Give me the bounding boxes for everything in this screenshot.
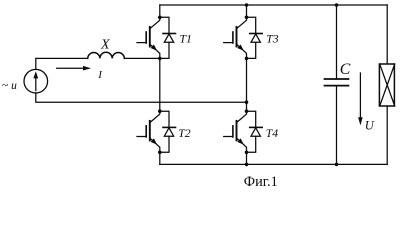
transistor T4 (IGBT) — [224, 111, 247, 152]
svg-text:C: C — [340, 61, 351, 78]
transistor T3 (IGBT) — [224, 17, 247, 58]
current direction arrow I — [57, 67, 84, 69]
transistor T1 (IGBT) — [137, 17, 160, 58]
wire: T3 collector to top rail — [246, 5, 248, 17]
wire: right leg vertical between T3 and T4 — [246, 58, 248, 111]
svg-text:T4: T4 — [266, 127, 279, 140]
wire: top DC rail — [160, 4, 387, 6]
junction dot at T4 collector tie — [245, 109, 249, 113]
svg-text:T3: T3 — [266, 33, 279, 46]
output voltage arrow U — [359, 73, 361, 118]
junction dot: T3 collector at top rail — [245, 3, 249, 7]
wire: capacitor branch — [336, 5, 338, 164]
wire: T1 collector to top rail — [159, 5, 161, 17]
junction dot at T3 emitter tie — [245, 57, 249, 61]
wire: source bottom to right leg midpoint (crosses left leg) — [36, 93, 247, 102]
wire: T4 emitter to bottom rail — [246, 152, 248, 164]
junction dot: capacitor at top rail — [335, 3, 339, 7]
junction dot: ac wire at right leg midpoint — [245, 100, 249, 104]
wire: load branch right side — [386, 5, 388, 164]
svg-text:Фиг.1: Фиг.1 — [244, 174, 278, 188]
freewheeling diode of T1 — [160, 17, 176, 58]
wire: left leg vertical between T1 and T2 — [159, 58, 161, 111]
wire: bottom DC rail — [160, 163, 387, 165]
freewheeling diode of T4 — [247, 111, 263, 152]
junction dot at T2 emitter tie — [158, 151, 162, 155]
inductor X (3 humps) — [88, 52, 125, 58]
transistor T2 (IGBT) — [137, 111, 160, 152]
freewheeling diode of T3 — [247, 17, 263, 58]
source ~u (AC current source circle) — [24, 69, 48, 93]
junction dot at T1 collector tie — [158, 15, 162, 19]
wire: T2 emitter to bottom rail — [159, 152, 161, 164]
freewheeling diode of T2 — [160, 111, 176, 152]
source internal arrow — [35, 77, 37, 90]
wire: source top to inductor to left leg midpoint — [36, 58, 160, 69]
junction dot at T2 collector tie — [158, 109, 162, 113]
junction dot at T1 emitter tie — [158, 57, 162, 61]
capacitor C plates — [325, 79, 349, 86]
svg-text:T2: T2 — [178, 127, 191, 140]
junction dot at T3 collector tie — [245, 15, 249, 19]
junction dot: T4 at bottom rail — [245, 163, 249, 167]
svg-text:T1: T1 — [180, 32, 192, 45]
junction dot at T4 emitter tie — [245, 151, 249, 155]
svg-text:U: U — [365, 119, 375, 133]
junction dot: capacitor at bottom rail — [335, 163, 339, 167]
svg-text:~ u: ~ u — [2, 80, 17, 92]
load (rectangle with X, transducer) — [379, 64, 394, 106]
svg-text:X: X — [100, 37, 110, 52]
